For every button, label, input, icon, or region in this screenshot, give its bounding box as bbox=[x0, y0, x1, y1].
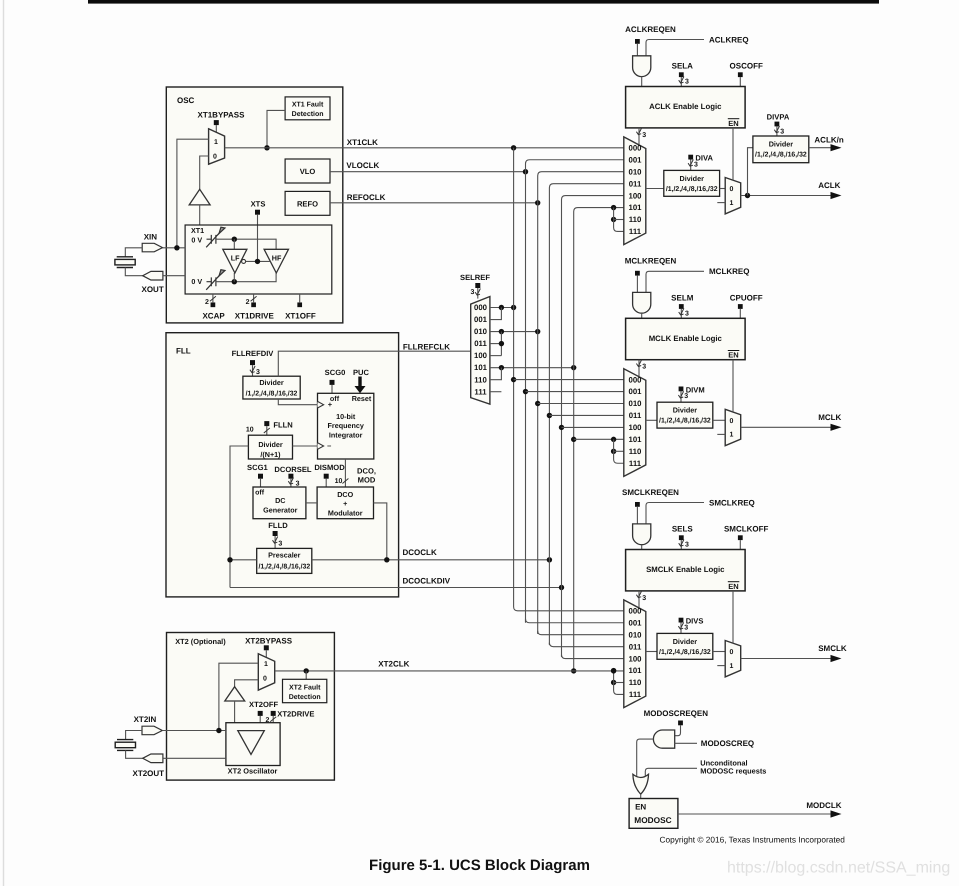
wire XOUT bbox=[163, 275, 185, 277]
stub outmux 1 SMCLK bbox=[717, 665, 725, 667]
svg-text:MODOSC: MODOSC bbox=[634, 815, 671, 825]
svg-text:110: 110 bbox=[629, 215, 642, 224]
wire LF apex down bbox=[233, 273, 235, 282]
wire SELREF 110 tie bbox=[490, 368, 502, 380]
svg-text:+: + bbox=[328, 400, 333, 409]
wire MCLK 011 bbox=[549, 414, 623, 416]
SMCLK Enable Logic box bbox=[626, 550, 746, 591]
svg-text:000: 000 bbox=[628, 375, 642, 384]
MCLKREQEN bit bbox=[635, 271, 640, 276]
SELS bit bbox=[679, 535, 684, 540]
pin XT2IN bbox=[142, 726, 162, 735]
svg-text:SMCLKREQ: SMCLKREQ bbox=[709, 498, 755, 507]
svg-text:3: 3 bbox=[471, 289, 475, 296]
mux source select ACLK bbox=[624, 137, 646, 245]
svg-text:XT1: XT1 bbox=[191, 226, 204, 235]
svg-text:3: 3 bbox=[685, 79, 689, 86]
svg-text:011: 011 bbox=[474, 339, 487, 348]
svg-text:XT2DRIVE: XT2DRIVE bbox=[277, 709, 314, 718]
integrator plus chevron bbox=[318, 401, 324, 408]
svg-text:DCOCLKDIV: DCOCLKDIV bbox=[403, 576, 451, 585]
XT2OFF bit bbox=[258, 711, 263, 716]
svg-text:FLLD: FLLD bbox=[268, 521, 288, 530]
svg-text:Prescaler: Prescaler bbox=[268, 551, 301, 560]
REFO box bbox=[285, 191, 330, 215]
node XT2IN junction bbox=[216, 728, 221, 733]
divider DIVM box bbox=[657, 402, 713, 428]
svg-text:101: 101 bbox=[628, 203, 642, 212]
svg-text:1: 1 bbox=[264, 661, 268, 668]
node cap bottom bbox=[232, 279, 237, 284]
svg-text:XT2OUT: XT2OUT bbox=[133, 769, 165, 778]
svg-text:0: 0 bbox=[729, 649, 733, 656]
mux enable MCLK bbox=[725, 409, 741, 445]
svg-text:MCLKREQ: MCLKREQ bbox=[709, 267, 749, 276]
svg-text:DIVS: DIVS bbox=[686, 617, 704, 626]
svg-text:SELA: SELA bbox=[672, 62, 694, 71]
svg-text:off: off bbox=[255, 488, 265, 496]
wire cap bottom to HF apex bbox=[216, 273, 276, 282]
tie SMCLK 101-111 bbox=[611, 668, 616, 673]
SCG1 bit bbox=[258, 474, 263, 479]
wire SMCLKREQEN to gate bbox=[636, 507, 638, 524]
svg-text:XT1BYPASS: XT1BYPASS bbox=[198, 110, 246, 119]
svg-text:HF: HF bbox=[272, 253, 282, 262]
mux enable ACLK bbox=[725, 178, 741, 214]
node SELREF 101 bus bbox=[571, 365, 576, 370]
node VLOCLK bus tap bbox=[523, 169, 528, 174]
node SELREF 101 tie bbox=[499, 365, 504, 370]
svg-text:MCLKREQEN: MCLKREQEN bbox=[625, 257, 677, 266]
node DCOCLK left bbox=[227, 557, 232, 562]
svg-text:/(N+1): /(N+1) bbox=[260, 450, 281, 459]
wire MCLKREQEN to gate bbox=[636, 276, 638, 293]
svg-text:SCG1: SCG1 bbox=[247, 463, 268, 472]
svg-text:MOD: MOD bbox=[358, 476, 376, 485]
svg-text:001: 001 bbox=[474, 315, 488, 324]
svg-text:111: 111 bbox=[474, 387, 487, 396]
wire XT2IN bbox=[162, 730, 226, 732]
ACLK Enable Logic box bbox=[626, 87, 746, 128]
PUC arrow bbox=[355, 377, 366, 394]
wire to DIVPA divider bbox=[748, 148, 753, 196]
svg-text:3: 3 bbox=[685, 310, 689, 317]
svg-text:XIN: XIN bbox=[144, 233, 158, 242]
node bus DCO MCLK bbox=[547, 413, 552, 418]
wire CPUOFF bbox=[739, 309, 741, 318]
svg-text:101: 101 bbox=[628, 435, 642, 444]
svg-text:0: 0 bbox=[263, 675, 267, 682]
svg-text:SELM: SELM bbox=[671, 294, 694, 303]
wire VLOCLK bbox=[330, 171, 526, 173]
svg-text:3: 3 bbox=[256, 369, 260, 376]
svg-text:FLL: FLL bbox=[176, 346, 191, 355]
svg-text:XOUT: XOUT bbox=[142, 285, 164, 294]
arrow ACLK/n bbox=[831, 144, 842, 151]
wire divider to outmux MCLK bbox=[713, 419, 725, 421]
pin XT1OFF bbox=[299, 294, 301, 302]
wire XIN bbox=[163, 247, 186, 249]
bus DCOCLKDIV vertical bbox=[562, 196, 624, 657]
FLLN bit bbox=[264, 421, 269, 426]
svg-text:Detection: Detection bbox=[289, 693, 321, 701]
wire divider to outmux SMCLK bbox=[713, 651, 725, 653]
svg-text:OSC: OSC bbox=[177, 96, 195, 105]
wire DIVPA bbox=[776, 126, 778, 136]
wire mux0 input bbox=[200, 156, 209, 189]
arrow MODCLK bbox=[831, 810, 842, 817]
wire XT1 fault tap bbox=[267, 110, 285, 147]
wire crystal top bbox=[125, 248, 142, 257]
wire REFOCLK bbox=[330, 202, 538, 204]
wire divider N+1 in bbox=[230, 446, 248, 588]
AND gate ACLK bbox=[633, 56, 651, 77]
svg-text:/1,/2,/4,/8,/16,/32: /1,/2,/4,/8,/16,/32 bbox=[659, 418, 711, 425]
svg-text:XT1DRIVE: XT1DRIVE bbox=[235, 312, 275, 321]
svg-text:EN: EN bbox=[728, 351, 738, 360]
divider DIVS box bbox=[657, 633, 713, 659]
svg-text:Integrator: Integrator bbox=[329, 430, 363, 439]
node XT2CLK smclk tie bbox=[611, 668, 616, 673]
pin XOUT bbox=[143, 271, 163, 280]
mux source select SMCLK bbox=[624, 600, 646, 708]
svg-text:Divider: Divider bbox=[673, 637, 698, 646]
node SELREF 011 tie bbox=[499, 341, 504, 346]
arrow SMCLK bbox=[831, 655, 842, 662]
svg-text:MCLK Enable Logic: MCLK Enable Logic bbox=[649, 334, 723, 343]
wire SCG0 bbox=[331, 385, 333, 393]
svg-text:EN: EN bbox=[635, 803, 646, 812]
svg-text:1: 1 bbox=[214, 139, 218, 146]
wire unconditional bbox=[645, 768, 697, 776]
arrow MCLK bbox=[831, 424, 842, 431]
node bus XT2 MCLK bbox=[571, 437, 576, 442]
crystal XT1 bbox=[115, 257, 135, 268]
svg-text:VLO: VLO bbox=[300, 167, 316, 176]
svg-text:XTS: XTS bbox=[251, 199, 266, 208]
bus VLOCLK vertical bbox=[526, 160, 624, 623]
CPUOFF bit bbox=[738, 304, 743, 309]
svg-text:000: 000 bbox=[628, 144, 642, 153]
wire crystal bottom bbox=[125, 268, 142, 276]
node SELREF 000 tie bbox=[499, 305, 504, 310]
wire AND out MCLK bbox=[641, 313, 643, 318]
svg-text:DCOCLK: DCOCLK bbox=[403, 548, 437, 557]
svg-text:1: 1 bbox=[729, 432, 733, 439]
node XTS junction bbox=[255, 259, 260, 264]
wire DC to DCO bbox=[306, 502, 317, 504]
wire DCO output down bbox=[374, 503, 387, 560]
XT1BYPASS bit bbox=[214, 120, 219, 125]
wire FLLREFCLK bbox=[278, 351, 470, 376]
svg-text:Divider: Divider bbox=[673, 406, 698, 415]
wire to LF top bbox=[233, 239, 235, 249]
XT2DRIVE bit bbox=[271, 711, 276, 716]
svg-text:Copyright © 2016, Texas Instru: Copyright © 2016, Texas Instruments Inco… bbox=[660, 834, 846, 844]
svg-text:VLOCLK: VLOCLK bbox=[346, 161, 379, 170]
svg-text:1: 1 bbox=[729, 663, 733, 670]
svg-text:FLLREFCLK: FLLREFCLK bbox=[403, 342, 450, 351]
svg-text:3: 3 bbox=[642, 364, 646, 371]
mux SELREF bbox=[471, 297, 490, 405]
svg-text:3: 3 bbox=[684, 393, 688, 400]
page left edge line bbox=[3, 0, 5, 886]
wire ACLK out bbox=[741, 195, 831, 197]
divider FLLREFDIV box bbox=[243, 376, 300, 399]
SELM bit bbox=[679, 304, 684, 309]
SELA bit bbox=[679, 72, 684, 77]
wire cap top to HF bbox=[216, 239, 276, 249]
svg-text:XCAP: XCAP bbox=[202, 312, 225, 321]
wire ACLK/n out bbox=[809, 147, 831, 149]
svg-text:https://blog.csdn.net/SSA_ming: https://blog.csdn.net/SSA_ming bbox=[727, 860, 950, 877]
svg-text:100: 100 bbox=[628, 191, 642, 200]
svg-text:SELREF: SELREF bbox=[460, 273, 490, 282]
wire MODOSCREQ bbox=[674, 742, 697, 744]
wire ACLKREQEN to gate bbox=[636, 44, 638, 56]
svg-text:DCO,: DCO, bbox=[357, 467, 376, 476]
mux enable SMCLK bbox=[725, 641, 741, 677]
svg-text:XT1CLK: XT1CLK bbox=[347, 138, 378, 147]
svg-text:3: 3 bbox=[642, 595, 646, 602]
svg-text:011: 011 bbox=[629, 642, 642, 651]
svg-text:101: 101 bbox=[628, 666, 642, 675]
SMCLKREQEN bit bbox=[635, 502, 640, 507]
svg-text:MODOSC requests: MODOSC requests bbox=[700, 767, 766, 776]
XT2 block box bbox=[167, 633, 335, 781]
capacitor XCAP bottom bbox=[206, 270, 225, 290]
LF output bubble bbox=[242, 259, 246, 263]
MODOSC box bbox=[629, 799, 678, 829]
svg-text:0: 0 bbox=[213, 153, 217, 160]
wire DCOCLK bbox=[230, 559, 257, 561]
svg-text:110: 110 bbox=[629, 678, 642, 687]
node cap top bbox=[232, 237, 237, 242]
wire XT2BYPASS bbox=[265, 650, 267, 657]
svg-text:XT2BYPASS: XT2BYPASS bbox=[245, 637, 293, 646]
SMCLKOFF bit bbox=[738, 535, 743, 540]
node XIN junction bbox=[174, 245, 179, 250]
svg-text:Figure 5-1. UCS Block Diagram: Figure 5-1. UCS Block Diagram bbox=[369, 857, 590, 874]
prescaler box bbox=[257, 548, 312, 573]
svg-text:MODCLK: MODCLK bbox=[806, 801, 841, 810]
wire DCORSEL bbox=[290, 479, 292, 487]
mux source select MCLK bbox=[624, 369, 646, 477]
wire XT2DRIVE bbox=[272, 716, 274, 723]
OSC block box bbox=[166, 87, 342, 323]
arrow ACLK bbox=[831, 192, 842, 199]
DC generator box bbox=[253, 487, 306, 519]
node SELREF 000 bus bbox=[511, 305, 516, 310]
svg-text:010: 010 bbox=[628, 167, 642, 176]
pin XT1DRIVE bbox=[253, 294, 255, 302]
svg-text:ACLK/n: ACLK/n bbox=[814, 135, 843, 144]
wire XT2CLK bbox=[275, 670, 624, 672]
stub outmux 1 ACLK bbox=[717, 202, 725, 204]
node REFOCLK bus tap bbox=[535, 200, 540, 205]
FLLREFDIV bit bbox=[250, 360, 255, 365]
wire XT2OUT bbox=[163, 757, 226, 759]
wire MCLKREQ bbox=[646, 271, 704, 292]
svg-text:+: + bbox=[343, 499, 347, 508]
wire XT2 crystal bottom bbox=[126, 750, 143, 758]
wire XT2OFF bbox=[259, 716, 261, 723]
wire mux to divider SMCLK bbox=[646, 651, 657, 653]
ACLKREQEN bit bbox=[635, 39, 640, 44]
bus REFOCLK vertical bbox=[538, 172, 624, 634]
wire divider N+1 out bbox=[293, 445, 318, 447]
wire SELA bbox=[680, 77, 682, 86]
wire OSCOFF bbox=[739, 77, 741, 86]
wire EN ACLK bbox=[732, 128, 734, 180]
svg-text:SCG0: SCG0 bbox=[325, 368, 346, 377]
wire MCLK 010 bbox=[538, 403, 624, 405]
AND gate MCLK bbox=[633, 292, 651, 313]
XT1 Fault Detection box bbox=[285, 97, 330, 120]
divider N+1 box bbox=[248, 435, 292, 459]
svg-text:010: 010 bbox=[628, 630, 642, 639]
AND gate MODOSC bbox=[653, 730, 674, 748]
svg-text:/1,/2,/4,/8,/16,/32: /1,/2,/4,/8,/16,/32 bbox=[755, 152, 807, 159]
svg-text:/1,/2,/4,/8,/16,/32: /1,/2,/4,/8,/16,/32 bbox=[659, 649, 711, 656]
wire SELREF 000 bbox=[490, 307, 514, 309]
wire SELREF 011 tie bbox=[490, 343, 502, 345]
SCG0 bit bbox=[330, 380, 335, 385]
wire MODOSCREQEN bbox=[674, 725, 681, 735]
wire SMCLK out bbox=[741, 658, 831, 660]
wire FLLREFDIV bbox=[252, 365, 254, 376]
svg-text:110: 110 bbox=[474, 375, 487, 384]
wire sel to mux MCLK bbox=[638, 360, 640, 377]
svg-text:001: 001 bbox=[628, 155, 642, 164]
svg-text:DIVA: DIVA bbox=[695, 154, 713, 163]
wire MCLK 000 bbox=[514, 379, 624, 381]
svg-text:–: – bbox=[327, 441, 331, 450]
svg-text:SELS: SELS bbox=[672, 525, 694, 534]
DCO modulator box bbox=[317, 487, 373, 519]
svg-text:010: 010 bbox=[474, 327, 488, 336]
svg-text:Divider: Divider bbox=[769, 139, 794, 148]
svg-text:10-bit: 10-bit bbox=[336, 412, 356, 421]
node bus DCODIV MCLK bbox=[559, 425, 564, 430]
svg-text:XT2OFF: XT2OFF bbox=[249, 700, 278, 709]
wire AND out SMCLK bbox=[641, 545, 643, 550]
wire sel to mux SMCLK bbox=[638, 591, 640, 608]
node bus XT2 end bbox=[571, 668, 576, 673]
wire SELREF 100 tie bbox=[490, 355, 502, 357]
svg-text:000: 000 bbox=[628, 607, 642, 616]
svg-text:3: 3 bbox=[780, 128, 784, 135]
svg-text:100: 100 bbox=[474, 351, 488, 360]
svg-text:10: 10 bbox=[246, 426, 254, 433]
SELREF bit bbox=[475, 283, 480, 288]
wire XT2 mux1 input bbox=[219, 663, 258, 730]
node SELREF 010 bus bbox=[535, 329, 540, 334]
svg-text:110: 110 bbox=[629, 447, 642, 456]
pin XT2OUT bbox=[143, 754, 163, 763]
wire divider to integrator bbox=[278, 399, 317, 405]
wire SELREF sel bbox=[477, 288, 479, 299]
mux XT2 bypass bbox=[258, 654, 274, 691]
DISMOD bit bbox=[324, 474, 329, 479]
wire mux to divider ACLK bbox=[646, 188, 664, 190]
svg-text:1: 1 bbox=[729, 200, 733, 207]
node XT1CLK bus tap bbox=[511, 145, 516, 150]
svg-text:EN: EN bbox=[728, 119, 738, 128]
node bus REFO MCLK bbox=[535, 401, 540, 406]
svg-text:DIVM: DIVM bbox=[686, 386, 705, 395]
svg-text:Reset: Reset bbox=[352, 394, 372, 403]
svg-text:OSCOFF: OSCOFF bbox=[730, 62, 763, 71]
svg-text:REFOCLK: REFOCLK bbox=[347, 193, 386, 202]
XT2 inverter triangle bbox=[238, 731, 264, 755]
svg-text:REFO: REFO bbox=[297, 199, 318, 208]
pin XIN bbox=[142, 243, 162, 252]
wire XTS bbox=[257, 215, 259, 262]
svg-text:SMCLK: SMCLK bbox=[818, 644, 847, 653]
wire XT1BYPASS to mux bbox=[215, 125, 217, 133]
stub outmux 1 MCLK bbox=[717, 433, 725, 435]
wire SCG1 bbox=[260, 479, 262, 487]
svg-text:3: 3 bbox=[685, 542, 689, 549]
svg-text:/1,/2,/4,/8,/16,/32: /1,/2,/4,/8,/16,/32 bbox=[258, 564, 310, 571]
svg-text:011: 011 bbox=[629, 411, 642, 420]
wire FLLN bbox=[266, 426, 268, 435]
svg-text:2: 2 bbox=[246, 299, 250, 306]
svg-text:100: 100 bbox=[628, 654, 642, 663]
svg-text:3: 3 bbox=[296, 480, 300, 487]
node ACLK branch bbox=[745, 193, 750, 198]
wire AND out ACLK bbox=[641, 76, 643, 86]
LF buffer bbox=[223, 249, 247, 273]
XTS bit bbox=[255, 210, 260, 215]
wire DIVS bbox=[680, 623, 682, 634]
svg-text:Modulator: Modulator bbox=[328, 509, 363, 518]
tie ACLK 101-111 bbox=[611, 205, 616, 210]
wire SELS bbox=[680, 540, 682, 549]
divider DIVA box bbox=[664, 170, 720, 196]
svg-text:Divider: Divider bbox=[680, 174, 705, 183]
wire SELREF 010 bbox=[490, 331, 538, 333]
wire ACLKREQ bbox=[646, 40, 704, 56]
wire XT2 crystal top bbox=[126, 731, 142, 740]
wire FLLD bbox=[274, 536, 276, 548]
wire SELREF 101 bbox=[490, 367, 574, 369]
wire DIVA bbox=[690, 160, 692, 171]
node DCOCLK right bbox=[384, 557, 389, 562]
svg-text:ACLKREQ: ACLKREQ bbox=[709, 35, 749, 44]
svg-text:SMCLKOFF: SMCLKOFF bbox=[724, 525, 769, 534]
wire divider to outmux ACLK bbox=[720, 188, 726, 190]
wire OR out bbox=[640, 794, 642, 799]
wire DISMOD bbox=[325, 479, 327, 487]
OR gate MODOSC bbox=[633, 774, 649, 794]
tie MCLK 101-111 bbox=[611, 437, 616, 442]
FLL block box bbox=[166, 333, 399, 597]
svg-text:XT2 (Optional): XT2 (Optional) bbox=[175, 637, 226, 646]
integrator minus chevron bbox=[318, 443, 324, 450]
svg-text:SMCLK Enable Logic: SMCLK Enable Logic bbox=[646, 565, 725, 574]
svg-text:DCO: DCO bbox=[337, 490, 353, 499]
svg-text:PUC: PUC bbox=[353, 368, 370, 377]
bus XT1CLK vertical bbox=[514, 148, 624, 611]
svg-text:FLLREFDIV: FLLREFDIV bbox=[232, 349, 275, 358]
svg-text:ACLK: ACLK bbox=[818, 181, 840, 190]
DIVS bit bbox=[679, 618, 684, 623]
svg-text:0: 0 bbox=[729, 418, 733, 425]
svg-text:011: 011 bbox=[629, 179, 642, 188]
XT2 oscillator box bbox=[226, 723, 280, 766]
